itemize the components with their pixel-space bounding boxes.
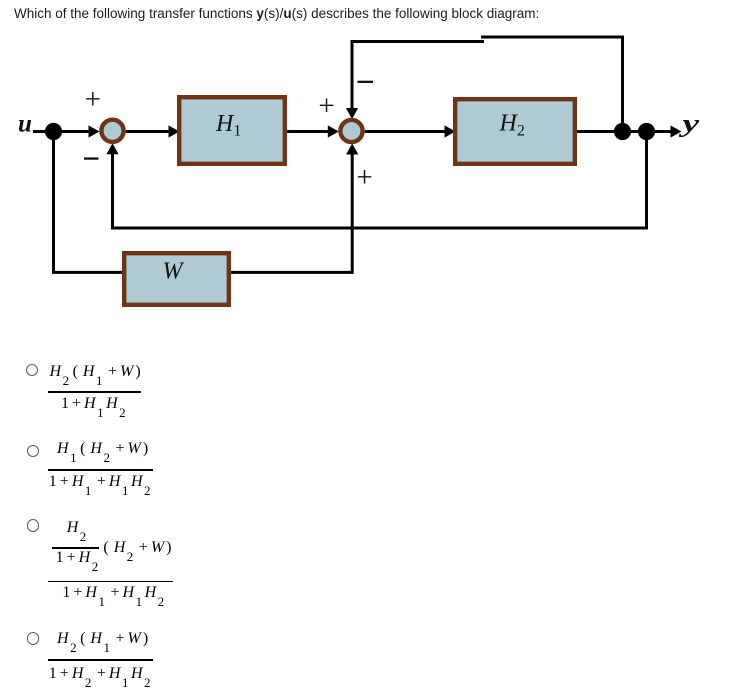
wire W output up to sum2: [231, 152, 352, 272]
option 3 inner numerator H2: [67, 520, 89, 536]
option 3 inner denominator 1+H2: [56, 550, 101, 566]
wire top feedback left segment: [352, 42, 484, 111]
svg-text:+: +: [356, 161, 372, 193]
summing junction sum1: [101, 120, 123, 142]
summing junction sum2: [340, 120, 362, 142]
wire H1 to sum2: [287, 130, 331, 133]
arrow into H1: [169, 125, 180, 137]
option 4 radio: [27, 632, 39, 644]
option 2 numerator H1(H2+W): [57, 441, 148, 457]
option 2 fraction bar: [48, 469, 153, 471]
svg-text:u: u: [18, 111, 32, 138]
option 1 numerator H2(H1+W): [50, 364, 141, 380]
option 1 radio: [26, 364, 38, 376]
option 4 fraction bar: [48, 659, 153, 661]
option 3 inner fraction bar: [52, 547, 100, 549]
option 1 denominator 1+H1H2: [61, 396, 128, 412]
option 4 numerator H2(H1+W): [57, 631, 148, 647]
node output junction dot 1: [614, 123, 631, 140]
wire H2 to output y: [577, 130, 673, 133]
option 3 factor (H2+W): [103, 540, 171, 556]
wire u tap down to W input: [54, 132, 123, 273]
arrow into sum1: [89, 125, 100, 137]
sign minus sum2 top: [358, 81, 374, 83]
arrow into H2: [445, 125, 456, 137]
option 3 main denominator 1+H1+H1H2: [62, 585, 166, 601]
wire sum1 to H1: [126, 130, 170, 133]
option 3 main fraction bar: [48, 581, 173, 583]
svg-text:W: W: [163, 258, 185, 284]
option 3 radio: [27, 519, 39, 531]
option 1 fraction bar: [48, 391, 141, 393]
option 2 radio: [27, 445, 39, 457]
arrow to output y: [671, 125, 682, 137]
block H1: [179, 97, 285, 164]
svg-text:y: y: [678, 110, 700, 137]
option 2 denominator 1+H1+H1H2: [49, 474, 153, 490]
block H2: [455, 99, 575, 164]
block W: [124, 253, 229, 305]
sign minus sum1: [84, 157, 99, 159]
svg-text:+: +: [318, 90, 334, 122]
wire u to sum1: [33, 130, 92, 133]
wire bottom feedback: [113, 132, 647, 229]
node u tap junction dot: [45, 123, 62, 140]
arrow into sum2 top: [346, 108, 358, 119]
arrow into sum1 bottom: [106, 143, 118, 154]
wire top feedback right segment: [481, 37, 623, 132]
arrow into sum2 bottom: [346, 144, 358, 155]
wire sum2 to H2: [365, 130, 446, 133]
label y: [678, 110, 700, 137]
node output junction dot 2: [638, 123, 655, 140]
arrow into sum2 left: [328, 125, 339, 137]
option 4 denominator 1+H2+H1H2: [49, 666, 153, 682]
svg-text:+: +: [85, 84, 101, 116]
